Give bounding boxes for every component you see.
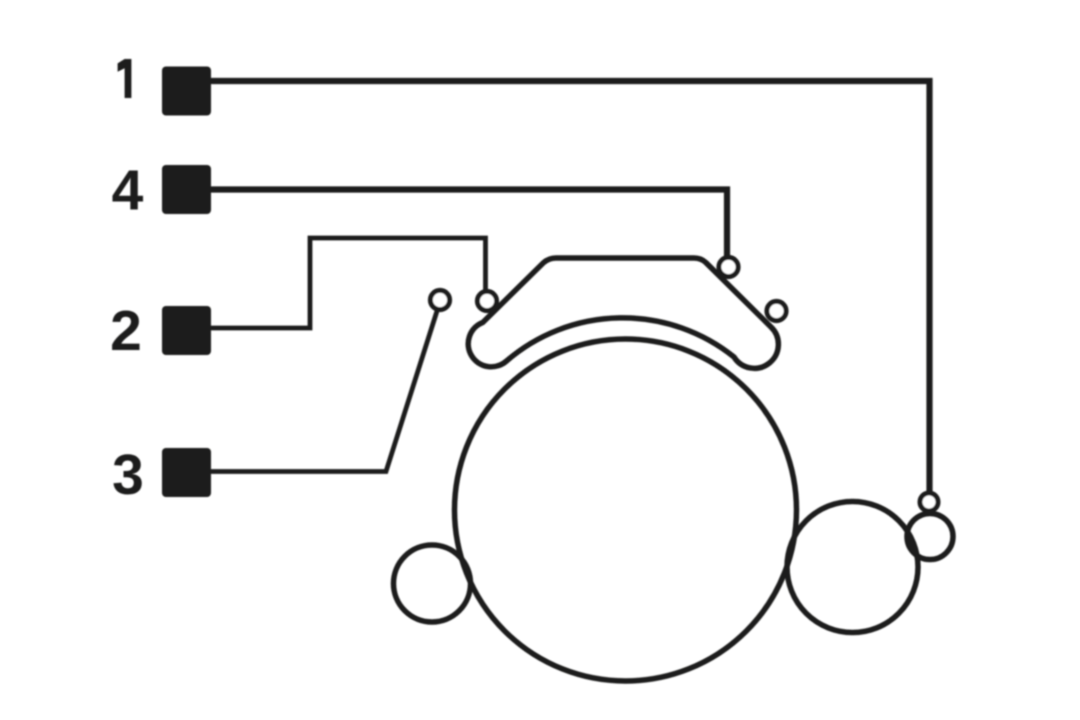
wire from terminal 4	[210, 190, 727, 258]
svg-text:3: 3	[112, 443, 144, 507]
tiny node circle (end of wire 1)	[920, 493, 938, 511]
contact circle top-right (node for wire 4)	[719, 257, 738, 276]
terminal square 2	[162, 306, 211, 355]
terminal label 1	[118, 59, 132, 98]
big rotor circle	[455, 339, 797, 681]
wire from terminal 3 (switch arm)	[210, 311, 437, 472]
terminal square 1	[162, 67, 211, 116]
medium roller circle right	[787, 502, 918, 633]
brush housing (hat) outline	[468, 258, 778, 368]
terminal square 4	[162, 165, 211, 214]
contact circle on left slope (node for wire 2)	[477, 291, 496, 310]
svg-text:4: 4	[112, 159, 144, 223]
small roller circle bottom-left	[394, 545, 471, 622]
small circle right of medium roller	[907, 514, 953, 560]
wire from terminal 1	[210, 81, 930, 493]
wire from terminal 2	[210, 238, 486, 328]
terminal square 3	[162, 448, 211, 497]
contact circle on right slope	[767, 301, 786, 320]
svg-text:2: 2	[110, 299, 142, 363]
switch wiper circle (node for wire 3)	[430, 290, 449, 309]
